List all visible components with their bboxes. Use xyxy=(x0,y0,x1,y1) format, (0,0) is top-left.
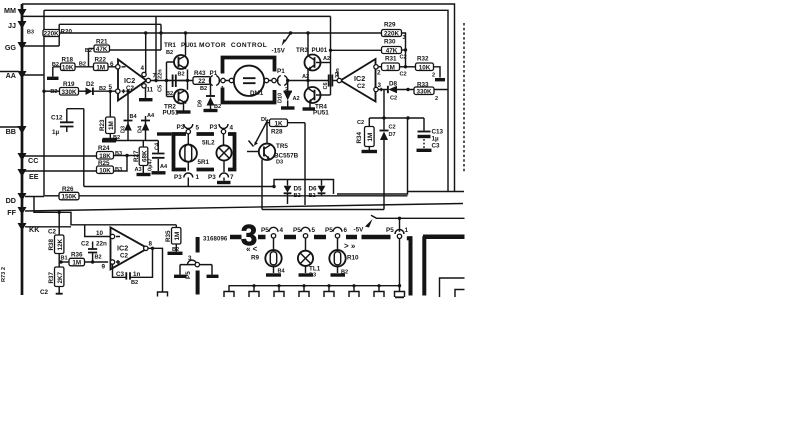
svg-text:R18: R18 xyxy=(62,57,74,64)
svg-text:R9: R9 xyxy=(251,255,260,262)
svg-text:R24: R24 xyxy=(98,145,110,152)
svg-text:10K: 10K xyxy=(62,64,74,71)
svg-text:R37: R37 xyxy=(48,271,55,283)
svg-text:R25: R25 xyxy=(98,160,110,167)
svg-text:P1: P1 xyxy=(277,68,285,75)
svg-text:D6: D6 xyxy=(309,186,318,193)
svg-text:A4: A4 xyxy=(160,164,168,170)
svg-text:R19: R19 xyxy=(63,81,75,88)
svg-text:IC2: IC2 xyxy=(354,74,365,83)
svg-text:B2: B2 xyxy=(131,280,138,286)
svg-text:4: 4 xyxy=(280,227,284,234)
svg-text:12K: 12K xyxy=(57,238,64,250)
svg-text:TR3: TR3 xyxy=(296,47,308,54)
svg-text:DL: DL xyxy=(261,117,269,123)
svg-text:2: 2 xyxy=(377,70,381,77)
svg-text:4: 4 xyxy=(230,125,234,132)
svg-text:1M: 1M xyxy=(386,64,395,71)
svg-text:B2: B2 xyxy=(99,86,106,92)
svg-text:11: 11 xyxy=(147,87,154,94)
svg-text:R21: R21 xyxy=(96,39,108,46)
svg-text:KK: KK xyxy=(29,225,40,234)
svg-text:C5: C5 xyxy=(158,85,164,92)
svg-text:P3: P3 xyxy=(210,124,218,131)
svg-text:-5V: -5V xyxy=(354,227,365,234)
svg-text:B4: B4 xyxy=(278,269,286,275)
svg-text:R35: R35 xyxy=(165,230,172,242)
svg-text:330K: 330K xyxy=(416,88,432,95)
svg-text:D9: D9 xyxy=(198,100,204,107)
svg-text:R30: R30 xyxy=(384,39,396,46)
svg-text:R10: R10 xyxy=(347,255,359,262)
svg-text:IC2: IC2 xyxy=(117,244,128,253)
svg-text:B2: B2 xyxy=(79,62,86,68)
svg-text:DD: DD xyxy=(6,196,16,205)
svg-text:C2: C2 xyxy=(390,96,397,102)
svg-text:R27: R27 xyxy=(133,150,140,162)
svg-text:R22: R22 xyxy=(95,57,107,64)
svg-text:C2: C2 xyxy=(400,55,407,61)
svg-text:P5: P5 xyxy=(261,227,269,234)
svg-text:R23: R23 xyxy=(99,119,106,131)
svg-text:5: 5 xyxy=(312,227,316,234)
svg-text:C2: C2 xyxy=(389,125,396,131)
svg-text:1M: 1M xyxy=(367,133,374,142)
svg-text:1M: 1M xyxy=(174,232,181,241)
svg-text:1n: 1n xyxy=(133,271,141,278)
svg-text:5IL2: 5IL2 xyxy=(202,140,215,147)
svg-text:B3: B3 xyxy=(309,273,316,279)
svg-text:CC: CC xyxy=(28,156,38,165)
svg-text:-15V: -15V xyxy=(272,48,286,55)
svg-text:5: 5 xyxy=(196,125,200,132)
svg-text:R26: R26 xyxy=(62,186,74,193)
svg-text:1: 1 xyxy=(405,227,409,234)
svg-text:C6: C6 xyxy=(323,82,329,89)
svg-text:B2: B2 xyxy=(214,104,221,110)
svg-text:6: 6 xyxy=(344,227,348,234)
svg-text:1M: 1M xyxy=(108,121,115,130)
svg-text:B1: B1 xyxy=(61,256,68,262)
svg-text:MOTOR CONTROL: MOTOR CONTROL xyxy=(199,42,267,49)
svg-text:> »: > » xyxy=(344,242,356,251)
svg-text:1µ: 1µ xyxy=(432,136,440,143)
svg-text:220K: 220K xyxy=(44,31,60,38)
svg-text:D2: D2 xyxy=(86,81,95,88)
svg-text:P3: P3 xyxy=(208,174,216,181)
svg-text:330K: 330K xyxy=(61,89,77,96)
svg-text:DM1: DM1 xyxy=(250,90,264,97)
svg-text:9: 9 xyxy=(101,264,105,271)
svg-text:2: 2 xyxy=(432,73,435,79)
svg-text:A2: A2 xyxy=(293,96,300,102)
svg-text:2: 2 xyxy=(435,96,438,102)
svg-text:P5: P5 xyxy=(386,227,394,234)
svg-text:TR5: TR5 xyxy=(276,143,288,150)
svg-text:B3: B3 xyxy=(115,151,122,157)
svg-text:4: 4 xyxy=(141,65,145,72)
svg-text:2K7: 2K7 xyxy=(57,271,64,283)
svg-text:R43: R43 xyxy=(194,70,206,77)
svg-text:B3: B3 xyxy=(27,30,34,36)
svg-text:10K: 10K xyxy=(99,167,111,174)
svg-text:C2: C2 xyxy=(126,85,135,92)
svg-text:B2: B2 xyxy=(309,193,316,199)
svg-text:3: 3 xyxy=(403,35,406,41)
svg-text:BC557B: BC557B xyxy=(274,153,299,160)
svg-text:R36: R36 xyxy=(71,252,83,259)
svg-text:1: 1 xyxy=(196,174,200,181)
svg-text:3: 3 xyxy=(188,255,192,262)
svg-text:P3: P3 xyxy=(174,174,182,181)
svg-text:150K: 150K xyxy=(61,194,77,201)
svg-text:47K: 47K xyxy=(386,48,398,55)
svg-text:C12: C12 xyxy=(51,115,63,122)
svg-text:B4: B4 xyxy=(130,114,138,120)
svg-text:47K: 47K xyxy=(96,46,108,53)
svg-text:BB: BB xyxy=(6,127,16,136)
svg-text:D3: D3 xyxy=(121,126,127,133)
svg-text:5R1: 5R1 xyxy=(198,159,210,166)
svg-text:C2: C2 xyxy=(357,83,366,90)
svg-text:1: 1 xyxy=(336,71,340,78)
svg-text:B2: B2 xyxy=(178,72,185,78)
svg-text:C2: C2 xyxy=(40,289,49,296)
svg-text:B3: B3 xyxy=(115,167,122,173)
svg-text:7: 7 xyxy=(153,73,157,80)
svg-text:R32: R32 xyxy=(417,56,429,63)
svg-text:1M: 1M xyxy=(72,260,81,267)
svg-text:P5: P5 xyxy=(293,227,301,234)
svg-text:R28: R28 xyxy=(271,129,283,136)
svg-text:A3: A3 xyxy=(135,167,142,173)
svg-text:8: 8 xyxy=(149,241,153,248)
svg-text:IC2: IC2 xyxy=(124,76,135,85)
svg-text:22: 22 xyxy=(198,78,206,85)
svg-text:R73 2: R73 2 xyxy=(1,267,7,282)
svg-text:B2: B2 xyxy=(166,50,173,56)
svg-text:C2: C2 xyxy=(120,253,129,260)
svg-text:22n: 22n xyxy=(158,69,164,79)
svg-text:« <: « < xyxy=(246,245,258,254)
svg-text:C2: C2 xyxy=(400,72,407,78)
svg-text:FF: FF xyxy=(7,208,16,217)
svg-text:P5: P5 xyxy=(325,227,333,234)
svg-text:D4: D4 xyxy=(138,125,144,133)
svg-text:B2: B2 xyxy=(166,91,173,97)
svg-text:5: 5 xyxy=(109,84,113,91)
svg-text:B2: B2 xyxy=(50,89,57,95)
svg-text:C3: C3 xyxy=(116,271,125,278)
svg-text:1µ: 1µ xyxy=(52,129,60,136)
svg-text:D10: D10 xyxy=(278,93,284,103)
svg-text:R20: R20 xyxy=(61,29,73,36)
svg-text:7: 7 xyxy=(230,174,234,181)
svg-text:0µ47: 0µ47 xyxy=(148,158,154,171)
svg-text:GG: GG xyxy=(5,43,17,52)
svg-text:R38: R38 xyxy=(48,238,55,250)
svg-text:A2: A2 xyxy=(302,74,309,80)
svg-text:TL1: TL1 xyxy=(309,266,321,273)
svg-text:22n: 22n xyxy=(96,241,107,248)
svg-text:R29: R29 xyxy=(384,22,396,29)
svg-text:C2: C2 xyxy=(357,120,364,126)
svg-text:A2: A2 xyxy=(323,56,330,62)
svg-text:3168096: 3168096 xyxy=(203,236,228,243)
svg-text:C3: C3 xyxy=(432,143,441,150)
svg-text:PU51: PU51 xyxy=(313,110,329,117)
svg-text:A4: A4 xyxy=(147,113,155,119)
svg-text:D3: D3 xyxy=(276,160,283,166)
svg-text:R34: R34 xyxy=(356,131,363,143)
svg-text:D5: D5 xyxy=(294,186,303,193)
svg-text:1K: 1K xyxy=(274,120,283,127)
svg-text:JJ: JJ xyxy=(8,21,16,30)
svg-text:PU01: PU01 xyxy=(181,42,197,49)
svg-text:D7: D7 xyxy=(389,132,396,138)
svg-text:10: 10 xyxy=(96,230,104,237)
svg-text:10K: 10K xyxy=(419,64,431,71)
svg-text:18K: 18K xyxy=(99,153,111,160)
svg-text:AA: AA xyxy=(6,71,16,80)
svg-text:TR1: TR1 xyxy=(164,42,176,49)
svg-text:B2: B2 xyxy=(294,193,301,199)
svg-text:C13: C13 xyxy=(432,129,444,136)
svg-text:R31: R31 xyxy=(385,56,397,63)
svg-text:MM: MM xyxy=(4,6,16,15)
svg-text:PU51: PU51 xyxy=(163,110,179,117)
svg-text:1M: 1M xyxy=(96,64,105,71)
svg-text:PU01: PU01 xyxy=(312,47,328,54)
svg-text:B2: B2 xyxy=(341,270,348,276)
svg-text:B2: B2 xyxy=(95,255,102,261)
svg-text:EE: EE xyxy=(29,172,39,181)
svg-text:220K: 220K xyxy=(384,31,400,38)
svg-text:B2: B2 xyxy=(200,86,207,92)
svg-text:C4: C4 xyxy=(155,142,161,150)
svg-text:C2: C2 xyxy=(81,241,90,248)
